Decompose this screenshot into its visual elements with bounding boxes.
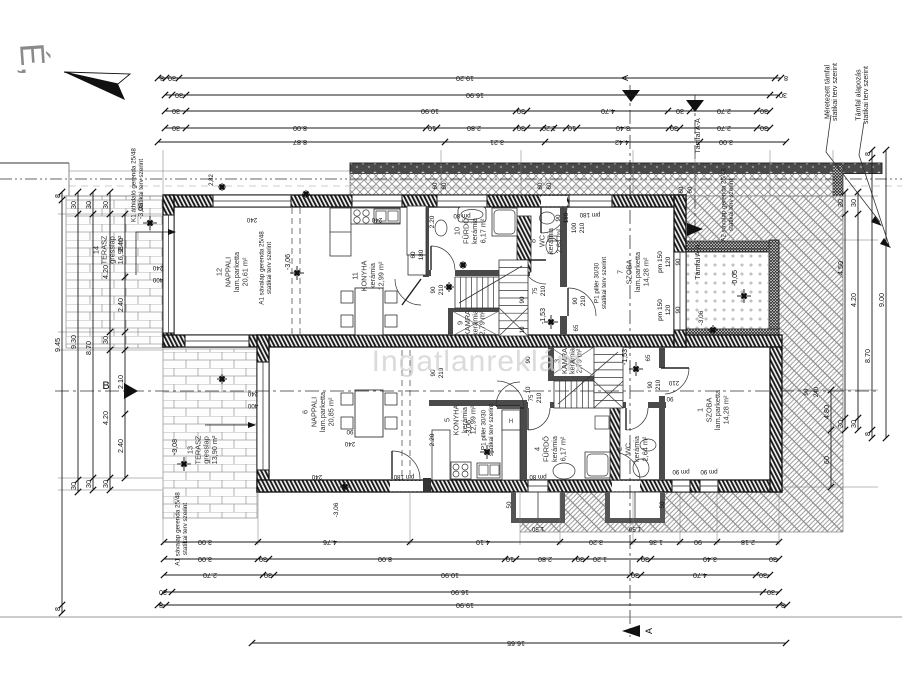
window nappali top <box>213 195 291 207</box>
section marker A bottom <box>622 625 640 637</box>
svg-text:90: 90 <box>430 286 437 293</box>
svg-text:B: B <box>102 380 109 392</box>
svg-text:50: 50 <box>659 501 666 508</box>
svg-text:210: 210 <box>438 284 445 295</box>
svg-text:9.45: 9.45 <box>53 338 62 352</box>
svg-text:20,85 m²: 20,85 m² <box>327 397 336 426</box>
svg-text:statikai terv szerint: statikai terv szerint <box>863 66 870 124</box>
terrace walls bottom <box>686 329 779 338</box>
window furdo top <box>437 195 487 207</box>
svg-text:pm 180: pm 180 <box>393 473 414 480</box>
svg-text:90: 90 <box>647 381 654 388</box>
svg-text:2.70: 2.70 <box>717 107 731 116</box>
svg-text:4.80: 4.80 <box>822 405 831 419</box>
svg-text:9.00: 9.00 <box>877 293 886 307</box>
svg-text:14,28 m²: 14,28 m² <box>722 395 731 424</box>
svg-text:pm 150: pm 150 <box>657 251 664 273</box>
svg-text:Ingatlanreklám: Ingatlanreklám <box>372 345 583 378</box>
svg-text:6,17 m²: 6,17 m² <box>479 218 488 243</box>
svg-text:8.70: 8.70 <box>84 341 93 355</box>
small cross furdo <box>459 261 467 269</box>
svg-text:2,64 m²: 2,64 m² <box>641 436 650 461</box>
ann tamfal right <box>825 63 840 121</box>
svg-text:30: 30 <box>101 201 110 209</box>
ann A2 <box>721 168 735 242</box>
terrace dotted floor <box>686 249 769 329</box>
svg-text:4.20: 4.20 <box>101 411 110 425</box>
svg-text:240: 240 <box>246 216 257 223</box>
top exterior wall <box>163 195 686 207</box>
svg-text:statikai terv szerint: statikai terv szerint <box>266 242 273 294</box>
svg-text:240: 240 <box>311 473 322 480</box>
svg-text:4.20: 4.20 <box>849 293 858 307</box>
label kamra upper <box>456 309 487 336</box>
label konyha lower <box>443 404 478 435</box>
svg-text:30: 30 <box>69 201 78 209</box>
svg-text:60: 60 <box>678 186 685 193</box>
dim bottom 1 <box>161 538 782 547</box>
svg-text:30: 30 <box>759 571 767 580</box>
level cross party <box>708 325 718 335</box>
svg-text:30: 30 <box>760 124 768 133</box>
svg-text:8: 8 <box>781 601 785 610</box>
dim left 3 <box>84 189 96 493</box>
svg-text:3.40: 3.40 <box>616 124 630 133</box>
window upper unit south <box>185 335 249 347</box>
dim bottom 2 <box>161 555 782 564</box>
svg-text:pm 90: pm 90 <box>700 468 718 475</box>
terrace 14 paving <box>66 196 163 348</box>
svg-text:30: 30 <box>631 571 639 580</box>
svg-text:2,79 m²: 2,79 m² <box>478 310 487 335</box>
svg-text:pm 180: pm 180 <box>579 211 600 218</box>
svg-text:-0,05: -0,05 <box>732 270 739 286</box>
wall konyha-furdo <box>423 207 429 277</box>
svg-text:3.21: 3.21 <box>490 138 504 147</box>
svg-text:3.00: 3.00 <box>719 138 733 147</box>
door szoba1 <box>665 368 689 394</box>
svg-text:65: 65 <box>573 324 580 331</box>
svg-text:9.30: 9.30 <box>69 335 78 349</box>
svg-text:statikai terv szerint: statikai terv szerint <box>601 257 608 309</box>
svg-text:100: 100 <box>571 222 578 233</box>
svg-text:2.20: 2.20 <box>429 215 436 228</box>
window wc top <box>569 195 612 207</box>
svg-text:60: 60 <box>687 186 694 193</box>
svg-text:4.70: 4.70 <box>693 571 707 580</box>
svg-text:210: 210 <box>579 222 586 233</box>
window konyha top <box>352 195 402 207</box>
dim bottom 3 <box>161 571 773 580</box>
svg-text:30: 30 <box>836 420 845 428</box>
ground hatch bottom edge <box>520 531 843 533</box>
svg-text:Támfal alapozás: Támfal alapozás <box>856 69 863 121</box>
svg-text:8: 8 <box>863 432 872 436</box>
svg-text:30: 30 <box>849 199 858 207</box>
level cross bottom wall <box>340 482 350 492</box>
svg-text:4.76: 4.76 <box>323 538 337 547</box>
svg-text:10: 10 <box>525 386 532 393</box>
dim left 2 <box>69 189 81 495</box>
leader tamfal <box>826 115 880 222</box>
svg-text:30: 30 <box>172 107 180 116</box>
svg-text:30: 30 <box>849 420 858 428</box>
entry door lower <box>612 452 640 480</box>
svg-text:10: 10 <box>568 124 576 133</box>
svg-text:-1,53: -1,53 <box>540 308 547 324</box>
dim right 3 <box>863 147 875 441</box>
wall kamra upper h <box>452 308 499 312</box>
svg-text:8: 8 <box>159 601 163 610</box>
svg-text:30: 30 <box>676 107 684 116</box>
level cross terrace lower <box>177 457 191 471</box>
label furdo lower <box>533 435 568 462</box>
tamfal marker top <box>686 100 704 112</box>
chimney upper <box>517 216 531 272</box>
chimney lower <box>610 408 620 480</box>
door furdo lower <box>528 408 550 430</box>
label konyha upper <box>351 260 386 291</box>
backfill band <box>350 174 833 197</box>
label nappali lower <box>301 391 336 432</box>
svg-text:A1 sávalap gerenda 25/48: A1 sávalap gerenda 25/48 <box>175 492 182 566</box>
door wc upper <box>522 260 546 284</box>
terrace walls top <box>686 241 779 252</box>
spot level property <box>218 183 226 191</box>
label furdo upper <box>453 217 488 244</box>
ann alapozas right <box>856 66 871 124</box>
leader terrace lower <box>205 424 248 426</box>
svg-text:30: 30 <box>264 571 272 580</box>
window szoba1 bottom b <box>700 480 718 492</box>
wall furdo-stair <box>423 270 530 276</box>
door nappali-hall upper <box>395 279 421 305</box>
svg-text:90: 90 <box>694 538 702 547</box>
wall furdo-wc top lower <box>527 402 666 408</box>
extension lines right <box>782 196 878 487</box>
door furdo upper <box>431 246 455 270</box>
svg-text:75: 75 <box>532 287 539 294</box>
leader alapozas <box>859 122 889 245</box>
svg-text:1.20: 1.20 <box>593 555 607 564</box>
north arrow <box>64 72 130 84</box>
wall hall-konyha lower <box>429 400 527 406</box>
svg-text:19.90: 19.90 <box>456 601 474 610</box>
dim top 4 <box>162 124 773 133</box>
label wc upper <box>529 227 564 254</box>
svg-text:2.80: 2.80 <box>467 124 481 133</box>
svg-text:60: 60 <box>546 182 553 189</box>
wall kamra upper v <box>448 308 453 335</box>
wall stair-nappali lower <box>548 347 554 381</box>
ground hatch right <box>520 196 843 532</box>
wall wc-szoba upper <box>560 207 567 335</box>
label terasz upper <box>91 235 125 264</box>
svg-text:8.00: 8.00 <box>378 555 392 564</box>
svg-text:statikai terv szerint: statikai terv szerint <box>182 503 189 555</box>
right exterior wall lower <box>770 347 782 492</box>
left exterior wall upper <box>163 195 174 347</box>
svg-text:16.90: 16.90 <box>466 91 484 100</box>
level cross nappali lower <box>480 445 494 459</box>
svg-text:240: 240 <box>152 264 163 271</box>
entry door gap lower <box>612 481 640 492</box>
backfill band end block <box>833 165 843 196</box>
svg-text:180: 180 <box>418 249 425 260</box>
dining table lower <box>341 390 397 437</box>
svg-text:-1,53: -1,53 <box>622 349 629 365</box>
svg-text:8.87: 8.87 <box>293 138 307 147</box>
bathroom fixtures upper <box>435 207 517 236</box>
door hall lower <box>497 381 524 408</box>
svg-text:90: 90 <box>803 388 810 395</box>
door gap wc lower <box>626 402 648 408</box>
level cross hall upper <box>544 315 558 329</box>
kitchen counter lower <box>432 410 520 480</box>
building interior fill <box>163 195 782 492</box>
svg-text:60: 60 <box>537 182 544 189</box>
section marker A top <box>622 90 640 102</box>
svg-text:30: 30 <box>517 124 525 133</box>
door gap szoba1 <box>659 368 665 396</box>
ann P1 lower <box>481 404 495 456</box>
entry door gap upper <box>541 196 567 207</box>
svg-text:30: 30 <box>769 555 777 564</box>
svg-text:10: 10 <box>428 124 436 133</box>
svg-text:3.00: 3.00 <box>198 555 212 564</box>
svg-text:210: 210 <box>536 392 543 403</box>
svg-text:12,99 m²: 12,99 m² <box>469 405 478 434</box>
svg-text:30: 30 <box>641 555 649 564</box>
svg-text:2.70: 2.70 <box>203 571 217 580</box>
ann K1 <box>131 148 145 222</box>
svg-text:10.90: 10.90 <box>421 107 439 116</box>
property line <box>0 178 902 180</box>
svg-text:240: 240 <box>813 386 820 397</box>
svg-text:2,64 m²: 2,64 m² <box>555 228 564 253</box>
svg-text:4.50: 4.50 <box>836 261 845 275</box>
pillar P1 lower <box>423 478 431 492</box>
window szoba7 right <box>674 252 686 330</box>
wall konyha-furdo lower <box>520 406 527 480</box>
svg-text:8: 8 <box>53 194 62 198</box>
entry door upper <box>541 207 567 233</box>
svg-text:-3,06: -3,06 <box>333 502 340 517</box>
svg-text:30: 30 <box>760 107 768 116</box>
svg-text:2.10: 2.10 <box>116 375 125 389</box>
terrace walls right <box>769 240 779 338</box>
svg-text:statikai terv szerint: statikai terv szerint <box>138 159 145 211</box>
svg-text:210: 210 <box>540 285 547 296</box>
svg-text:P1 pillér 30/30: P1 pillér 30/30 <box>481 409 488 450</box>
svg-text:2.20: 2.20 <box>429 433 436 446</box>
extension lines top <box>163 150 833 196</box>
svg-text:30: 30 <box>84 480 93 488</box>
svg-text:30: 30 <box>767 588 775 597</box>
door gap furdo lower <box>528 402 550 408</box>
terrace door window lower-left <box>257 362 269 470</box>
kitchen counter upper <box>330 206 426 275</box>
svg-text:4.20: 4.20 <box>101 265 110 279</box>
level cross stair upper <box>444 282 454 292</box>
level cross terrace right <box>737 289 751 303</box>
section line A-A <box>629 85 631 637</box>
door gap furdo upper <box>431 270 455 276</box>
exterior step a <box>511 492 565 523</box>
svg-text:10.90: 10.90 <box>441 571 459 580</box>
svg-text:30: 30 <box>159 588 167 597</box>
svg-text:30: 30 <box>69 482 78 490</box>
svg-text:240: 240 <box>247 390 258 397</box>
svg-text:13,90 m²: 13,90 m² <box>210 435 219 464</box>
svg-text:pm 150: pm 150 <box>657 299 664 321</box>
svg-text:90: 90 <box>572 297 579 304</box>
svg-text:60: 60 <box>432 182 439 189</box>
dim bottom 4 <box>159 588 782 597</box>
svg-text:30: 30 <box>172 124 180 133</box>
label kamra lower <box>553 347 584 374</box>
svg-text:2.18: 2.18 <box>741 538 755 547</box>
svg-text:statikai terv szerint: statikai terv szerint <box>832 63 839 121</box>
svg-text:A: A <box>644 628 654 634</box>
svg-text:8.00: 8.00 <box>293 124 307 133</box>
dim bottom 6 <box>249 639 789 648</box>
wc fixtures upper <box>540 212 559 254</box>
svg-text:A2 sávalap gerenda 25/48: A2 sávalap gerenda 25/48 <box>721 168 728 242</box>
svg-text:1.50: 1.50 <box>628 525 641 532</box>
svg-text:8: 8 <box>53 607 62 611</box>
svg-text:90: 90 <box>675 258 682 265</box>
svg-text:90: 90 <box>666 395 673 402</box>
wc fixtures lower <box>633 439 656 477</box>
svg-text:2.40: 2.40 <box>116 439 125 453</box>
svg-text:É,: É, <box>12 42 52 77</box>
svg-text:-3,06: -3,06 <box>285 254 292 270</box>
dim left 4 <box>101 189 113 493</box>
window furdo bottom <box>528 480 548 492</box>
svg-text:210: 210 <box>668 379 679 386</box>
svg-text:120: 120 <box>665 256 672 267</box>
svg-text:8: 8 <box>784 74 788 83</box>
divider dashed upper <box>291 208 293 334</box>
right exterior wall upper <box>674 195 686 347</box>
svg-text:30: 30 <box>84 201 93 209</box>
svg-text:14,28 m²: 14,28 m² <box>642 257 651 286</box>
svg-text:1.35: 1.35 <box>649 538 663 547</box>
ann P1 upper <box>594 257 608 309</box>
svg-text:400: 400 <box>247 402 258 409</box>
svg-text:16.65: 16.65 <box>507 639 525 648</box>
svg-text:pm 80: pm 80 <box>529 473 547 480</box>
section line tamfal <box>694 95 696 240</box>
svg-text:240: 240 <box>371 216 382 223</box>
svg-text:4.70: 4.70 <box>601 107 615 116</box>
left exterior wall lower <box>257 335 269 492</box>
svg-text:240: 240 <box>344 440 355 447</box>
door konyha lower <box>496 382 520 406</box>
svg-text:3.00: 3.00 <box>198 538 212 547</box>
svg-text:1.20: 1.20 <box>542 124 556 133</box>
svg-text:30: 30 <box>836 199 845 207</box>
svg-text:12,99 m²: 12,99 m² <box>377 261 386 290</box>
wall kamra lower h <box>550 376 594 381</box>
svg-text:8: 8 <box>160 74 164 83</box>
svg-text:8: 8 <box>863 152 872 156</box>
svg-text:2,82: 2,82 <box>209 174 215 186</box>
leader terrace upper <box>136 232 168 275</box>
door nappali-konyha lower <box>392 451 420 479</box>
svg-text:3.40: 3.40 <box>703 555 717 564</box>
svg-text:-3,08: -3,08 <box>172 439 179 455</box>
bathroom fixtures lower <box>553 416 610 479</box>
svg-text:90: 90 <box>346 428 353 435</box>
site line left <box>0 162 69 164</box>
svg-text:10: 10 <box>506 555 514 564</box>
door gap terrace lower <box>390 481 423 491</box>
svg-text:180: 180 <box>563 212 570 223</box>
svg-text:60: 60 <box>441 182 448 189</box>
label nappali upper <box>215 251 250 292</box>
bottom exterior wall <box>257 480 782 492</box>
party wall <box>163 335 782 347</box>
svg-text:90: 90 <box>555 214 562 221</box>
terrace door window upper-left <box>163 215 174 333</box>
svg-text:19.20: 19.20 <box>456 74 474 83</box>
window szoba1 bottom a <box>672 480 690 492</box>
svg-text:pm 90: pm 90 <box>672 468 690 475</box>
level cross hall lower <box>629 362 643 376</box>
dim right 2 <box>849 189 861 433</box>
svg-text:4.42: 4.42 <box>615 138 629 147</box>
level cross nappali upper <box>290 266 304 280</box>
svg-text:10: 10 <box>519 326 526 333</box>
svg-text:3.20: 3.20 <box>589 538 603 547</box>
dining table upper <box>341 288 397 335</box>
door gap szoba7 <box>560 287 567 316</box>
extension lines bottom <box>163 492 779 545</box>
svg-text:30: 30 <box>168 74 176 83</box>
dim top 2 <box>162 91 787 100</box>
svg-text:8.70: 8.70 <box>863 349 872 363</box>
door wc lower <box>626 408 648 430</box>
setback dashed line <box>69 185 902 187</box>
dim left 1 <box>53 189 65 616</box>
svg-text:400: 400 <box>152 276 163 283</box>
svg-text:120: 120 <box>665 304 672 315</box>
exterior step b <box>605 492 665 523</box>
kamra lower brace <box>550 347 594 376</box>
svg-text:statikai terv szerint: statikai terv szerint <box>488 404 495 456</box>
svg-text:H: H <box>509 419 513 425</box>
svg-text:-3,06: -3,06 <box>698 310 705 325</box>
svg-text:30: 30 <box>779 91 787 100</box>
label szoba upper <box>616 251 651 292</box>
svg-text:K1 áthidaló gerenda 25/48: K1 áthidaló gerenda 25/48 <box>131 148 138 222</box>
ann A1 bottom <box>175 492 189 566</box>
svg-text:20,61 m²: 20,61 m² <box>241 257 250 286</box>
svg-text:16.90: 16.90 <box>451 588 469 597</box>
svg-text:30: 30 <box>101 480 110 488</box>
svg-text:2.40: 2.40 <box>116 298 125 312</box>
tamfal marker mid <box>687 223 703 236</box>
sheet rule <box>0 616 902 618</box>
dim right 4 <box>877 147 889 441</box>
svg-text:210: 210 <box>655 379 662 390</box>
label wc lower <box>615 435 650 462</box>
svg-text:65: 65 <box>645 354 652 361</box>
dim top 5 <box>155 138 789 147</box>
svg-text:30: 30 <box>670 124 678 133</box>
